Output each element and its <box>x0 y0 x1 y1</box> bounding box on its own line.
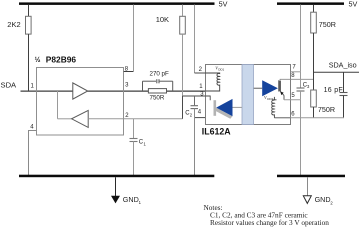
svg-text:SDA_iso: SDA_iso <box>329 60 357 69</box>
svg-text:IL612A: IL612A <box>202 127 231 137</box>
capacitor C1 plates <box>130 138 138 140</box>
5V rail right (top) <box>277 2 344 5</box>
svg-text:5V: 5V <box>219 0 228 8</box>
svg-text:½: ½ <box>35 56 41 64</box>
pin 4 stub IL612A <box>195 117 206 119</box>
wire C2 pin4 node to ground rail <box>194 109 196 176</box>
MOSFET gate bar <box>278 80 280 91</box>
svg-text:750R: 750R <box>318 105 335 114</box>
wire resistor 2K2 to SDA line <box>28 34 30 91</box>
capacitor C3 plates <box>297 87 305 89</box>
svg-text:10K: 10K <box>156 15 169 24</box>
source wire diagonal <box>280 91 284 95</box>
svg-text:DD1: DD1 <box>218 68 224 72</box>
wire 5V rail to pin 8 <box>133 5 135 72</box>
ground rail left (bottom) <box>19 175 214 178</box>
svg-text:270 pF: 270 pF <box>150 71 169 78</box>
wire 5V rail to resistor 10K <box>182 5 184 17</box>
svg-text:P82B96: P82B96 <box>46 54 77 64</box>
GND2 stem <box>307 177 309 196</box>
wire pin5 node down to GND2 line <box>300 100 302 118</box>
GND2 symbol (open arrow) <box>303 196 311 204</box>
op-amp buffer U1B (P82B96 lower) <box>72 110 89 127</box>
wire 5V rail to resistor 2K2 <box>28 5 30 17</box>
270pF right riser <box>172 81 174 91</box>
wire C3 to pin 5 node <box>300 91 302 100</box>
resistor 750R top right <box>311 12 317 33</box>
GND1 stem <box>115 177 117 196</box>
svg-text:5V: 5V <box>349 0 358 8</box>
capacitor C2 stem top <box>194 96 196 105</box>
resistor 10K <box>180 16 186 34</box>
IC U1 P82B96 box <box>37 68 124 136</box>
wire 5V rail to pin 7 <box>300 5 302 72</box>
capacitor 16pF stem top <box>343 72 345 92</box>
wire buffer input tap down <box>57 91 59 119</box>
wire 10K to pin3 node <box>182 34 184 96</box>
svg-text:DD2: DD2 <box>267 97 273 101</box>
wire pin3 node down to pin2 wire <box>182 96 184 119</box>
wire pin2 net to 10K node <box>124 118 183 120</box>
coil VDD1 (IL612A input winding) <box>205 73 220 91</box>
arrow into pin 4 <box>205 116 211 118</box>
resistor 2K2 <box>26 16 32 34</box>
wire 5V rail to 750R top <box>313 5 315 13</box>
drain wire to pin 8 / SDA_iso node <box>280 79 313 81</box>
capacitor 16pF stem bottom <box>343 96 345 118</box>
receiver triangle shadow <box>214 108 233 119</box>
coil VDD2 (IL612A output winding) <box>272 97 277 118</box>
svg-text:GND: GND <box>123 195 139 204</box>
GND2 line <box>290 117 344 119</box>
svg-text:Resistor values change for 3 V: Resistor values change for 3 V operation <box>210 218 329 227</box>
pin 3 stub IL612A <box>183 95 206 97</box>
wire buffer B output to pin 2 <box>88 118 124 120</box>
internal wire pin 3 to receiver <box>205 96 210 100</box>
wire coil VDD2 bottom to pin 6 line <box>274 117 290 119</box>
wire 5V rail to IL612A pin 2 <box>194 5 196 74</box>
isolation barrier stripe <box>242 65 254 125</box>
pin 8 stub P82B96 <box>124 71 134 73</box>
MOSFET channel bar <box>279 81 281 91</box>
svg-text:GND: GND <box>315 195 331 204</box>
pin 7 stub <box>291 71 301 73</box>
GND1 symbol (filled arrow) <box>111 196 120 204</box>
capacitor 16pF plates <box>340 92 348 94</box>
wire SDA line RC to IL612A pin 1 <box>167 90 206 92</box>
pin 5 stub (source to bus) <box>284 99 301 101</box>
capacitor C2 plates <box>191 105 199 107</box>
capacitor 270pF branch left riser <box>142 81 144 91</box>
svg-text:750R: 750R <box>319 20 336 29</box>
op-amp buffer U1A (P82B96 upper) <box>73 83 88 99</box>
270pF top wire <box>143 80 157 82</box>
driver triangle (blue) <box>262 80 278 96</box>
wire pin 7 node to C3 <box>300 72 302 88</box>
svg-text:750R: 750R <box>150 94 165 101</box>
capacitor C1 stem top <box>133 119 135 139</box>
receiver triangle (blue) <box>216 99 232 116</box>
capacitor C1 stem bottom <box>133 141 135 175</box>
source arrow <box>280 91 283 95</box>
wire pin 4 to ground rail <box>29 131 37 176</box>
capacitor 270pF plates <box>156 79 158 83</box>
isolator U2 IL612A box <box>206 65 291 125</box>
wire tap to buffer B tip <box>58 118 72 120</box>
wire stripe to driver <box>254 87 263 89</box>
wire GND2 bus down to ground rail <box>300 118 302 175</box>
resistor 750R series <box>148 89 166 93</box>
svg-text:16 pF: 16 pF <box>324 87 343 94</box>
wire 750R bottom to GND2 line <box>313 107 315 118</box>
pin 2 stub IL612A <box>195 72 206 74</box>
wire 750R to SDA_iso line <box>313 33 315 90</box>
5V rail left (top) <box>19 2 215 5</box>
GMR element bar (receiver input) <box>214 100 217 116</box>
resistor 750R bottom right <box>311 90 317 107</box>
wire SDA_iso line <box>314 71 359 73</box>
svg-text:SDA: SDA <box>1 81 18 90</box>
ground rail right (bottom) <box>277 175 345 178</box>
svg-text:2K2: 2K2 <box>7 20 20 29</box>
wire receiver to stripe <box>233 106 242 108</box>
wire SDA main line <box>21 90 149 92</box>
